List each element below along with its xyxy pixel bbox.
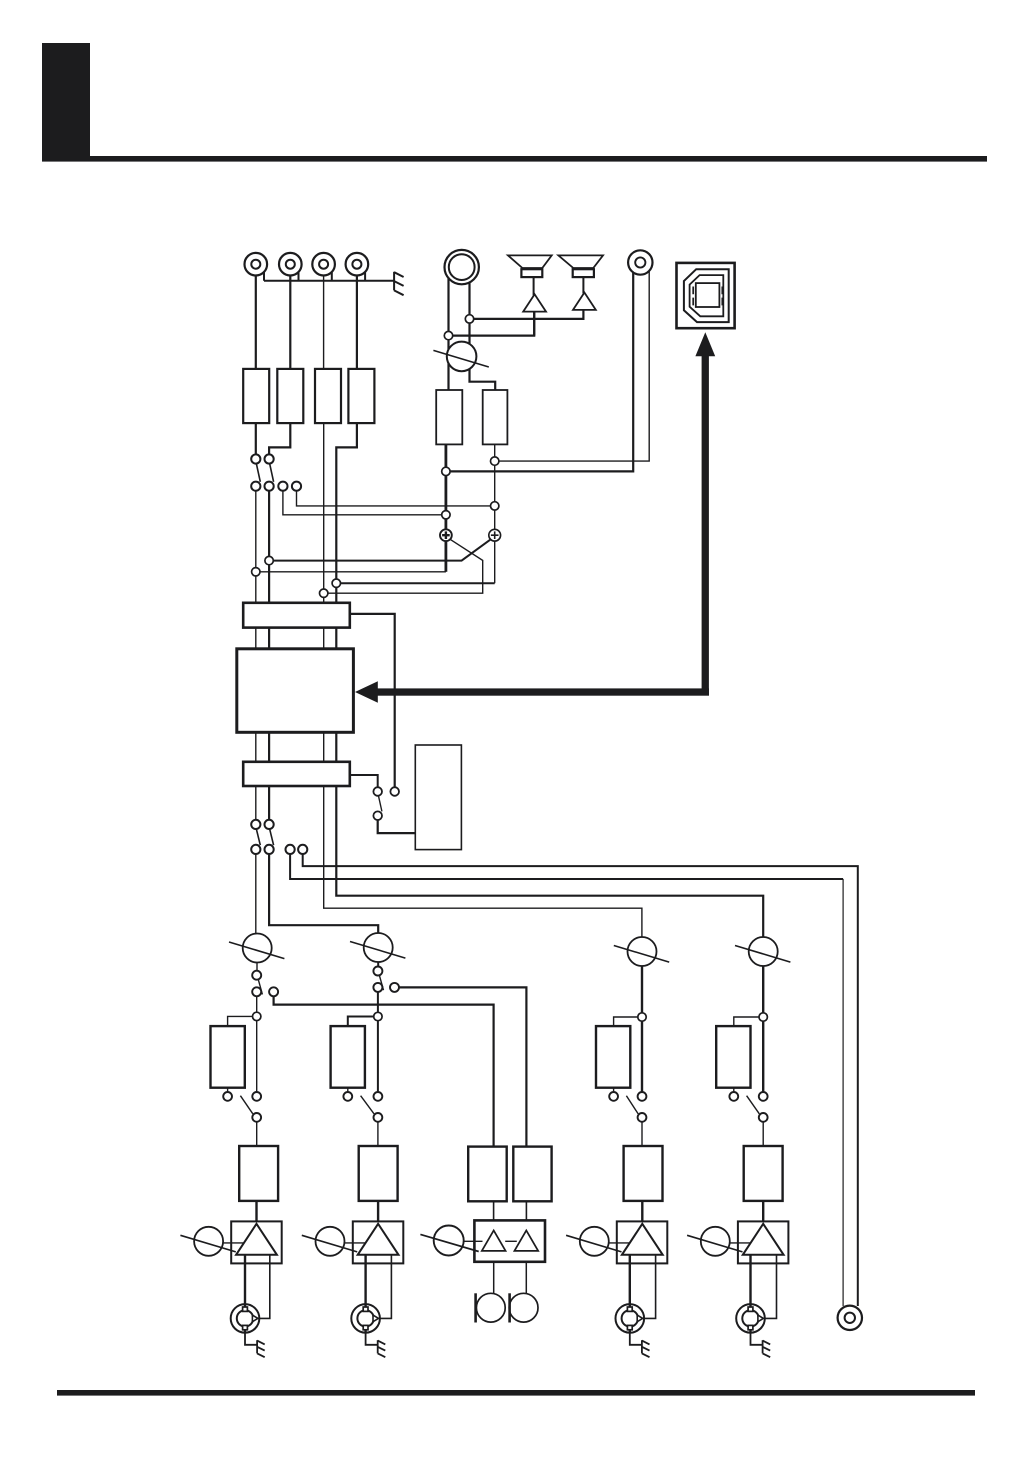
bus to sum R lower with diagonal — [271, 540, 490, 561]
amp box ch3 — [617, 1221, 668, 1263]
junction B4 bus on v2 — [491, 502, 499, 510]
arrow to USB — [695, 332, 715, 692]
bus to speaker amp R — [471, 310, 583, 319]
chassis ground G1 — [394, 272, 404, 295]
wire switch to fader ch4 — [762, 1122, 764, 1146]
chassis ground ch3 — [630, 1333, 650, 1358]
level knob ch2 — [350, 933, 405, 962]
wire B1 down — [255, 491, 257, 603]
wire amp to jack ch1 — [244, 1255, 246, 1333]
wire rec amp L out — [493, 1262, 495, 1294]
arrow to DSP — [355, 681, 709, 703]
wire ch4 main down — [762, 966, 764, 1092]
amp triangle ch4 — [743, 1224, 784, 1255]
wire ch2 main down — [377, 992, 379, 1092]
wire rec amp R out — [525, 1262, 527, 1294]
amp box ch2 — [353, 1221, 404, 1263]
wire bus2 ch1 down — [255, 786, 257, 820]
bus ch2 to rec B — [399, 987, 526, 1146]
bus block 2 — [243, 762, 350, 786]
fader block ch2 — [359, 1146, 398, 1201]
wire v1 mic A down — [444, 444, 447, 529]
mic block A — [436, 390, 462, 444]
wires DSP to bus2 thin — [256, 732, 324, 762]
wire rec A to amp — [493, 1201, 495, 1220]
speaker amp R — [573, 293, 596, 310]
fader block ch3 — [624, 1146, 663, 1201]
speaker R — [558, 255, 603, 293]
wire amp to jack ch2 — [364, 1255, 366, 1333]
junction ch4 wire — [332, 579, 340, 587]
junction ch1 — [253, 1012, 261, 1020]
bus output R to jack — [303, 854, 858, 1306]
aux switch ch1 — [252, 971, 278, 997]
wire sum L cross to ch3 — [328, 539, 483, 593]
bus to speaker amp L — [450, 312, 534, 336]
EQ bypass switch ch1 — [223, 1088, 261, 1122]
wire amp return ch3 — [644, 1255, 656, 1319]
rec amp triangle L — [482, 1230, 506, 1251]
aux switch ch2 — [373, 967, 399, 992]
wires bus1 to DSP thick — [269, 628, 336, 649]
bus v1 to jack J5 left — [446, 273, 633, 472]
contact B3 — [278, 482, 287, 491]
wire knob2 down — [377, 962, 379, 967]
bus B3 to sum L — [283, 491, 446, 515]
mic block B — [483, 390, 508, 444]
wire J3 drop — [323, 276, 325, 369]
sum node R — [489, 529, 501, 541]
chassis ground ch2 — [366, 1333, 386, 1358]
switch S1 — [251, 454, 260, 490]
wire to recorder block — [378, 820, 416, 833]
bus output L vertical — [842, 879, 844, 1306]
wire knob1 down — [256, 962, 258, 970]
wire amp to jack ch4 — [749, 1255, 751, 1333]
chassis ground ch1 — [245, 1333, 265, 1358]
wire mic L — [447, 278, 449, 390]
output jack J5 — [628, 250, 652, 274]
bus ch1 to rec A — [274, 996, 494, 1146]
phones jack ch3 — [616, 1304, 645, 1333]
wire amp return ch4 — [765, 1255, 777, 1319]
rec amp inner link — [505, 1240, 517, 1242]
junction ch3 wire — [320, 589, 328, 597]
bus block 1 — [243, 603, 350, 628]
switch S5 — [251, 820, 260, 854]
bus output L horizontal — [290, 854, 843, 879]
wire B2 down — [268, 491, 270, 603]
phones jack ch2 — [351, 1304, 380, 1333]
wire R2 jog to switch — [269, 423, 290, 454]
wire bus2 right out — [350, 775, 378, 787]
amp knob stub ch3 — [607, 1242, 630, 1244]
rca jack R — [509, 1293, 538, 1322]
amp knob stub ch1 — [222, 1242, 245, 1244]
wire ch3 eq link — [614, 1017, 639, 1026]
speaker L — [508, 255, 552, 295]
wire fader to amp ch3 — [641, 1201, 643, 1222]
wire fader to amp ch4 — [762, 1201, 764, 1222]
wire J1 drop — [255, 276, 257, 369]
wire ch3 down to knob — [324, 786, 642, 937]
amp triangle ch1 — [236, 1224, 277, 1255]
level knob ch1 — [229, 934, 284, 963]
amp triangle ch2 — [358, 1224, 399, 1255]
bus B4 to sum R — [297, 491, 495, 506]
wire bus2 ch2 down — [268, 786, 270, 820]
rec block A — [468, 1147, 507, 1202]
EQ block ch2 — [331, 1026, 365, 1088]
junction mic R — [465, 315, 473, 323]
junction ch3 — [638, 1013, 646, 1021]
bus sum R to ch4 wire — [341, 582, 495, 584]
wire switch to fader ch3 — [641, 1122, 643, 1146]
wire ch1 to knob — [255, 854, 257, 934]
sum node L — [440, 529, 452, 541]
phones jack ch1 — [231, 1304, 260, 1333]
wire ch1 main down — [256, 996, 258, 1092]
wire R4 jog down to bus block — [336, 423, 357, 603]
amp box ch1 — [231, 1221, 282, 1263]
ground bus wire — [264, 273, 394, 281]
wire fader to amp ch1 — [255, 1201, 257, 1222]
rec knob stub — [463, 1240, 483, 1242]
junction v2 upper — [491, 457, 499, 465]
level knob ch3 — [614, 937, 669, 966]
switch S2 — [265, 454, 274, 490]
junction on B2 wire — [265, 556, 273, 564]
wire R3 down to bus block — [323, 423, 325, 603]
EQ block ch4 — [716, 1026, 750, 1088]
wire switch to fader ch1 — [256, 1122, 258, 1146]
switch S6 — [265, 820, 274, 854]
wire ch2 eq link — [348, 1017, 375, 1027]
wire amp to jack ch3 — [629, 1255, 631, 1333]
contact out R — [298, 845, 307, 854]
wire J4 drop — [356, 276, 358, 369]
amp knob ch1 — [180, 1227, 235, 1256]
rca jack L — [476, 1293, 506, 1322]
wire ch4 eq link — [734, 1017, 760, 1026]
wire ch4 down to knob — [336, 786, 763, 937]
headphone jack J6 — [445, 250, 479, 284]
EQ block ch1 — [211, 1026, 245, 1088]
wires bus1 to DSP thin — [256, 628, 324, 649]
junction B3 bus on v1 — [442, 511, 450, 519]
wire amp return ch1 — [259, 1255, 270, 1319]
junction v1 upper — [442, 467, 450, 475]
rec block B — [513, 1147, 551, 1202]
wire ch2 to knob — [269, 854, 378, 933]
wire amp return ch2 — [380, 1255, 392, 1319]
junction on B1 wire — [252, 568, 260, 576]
recorder switch — [373, 787, 399, 820]
amp triangle ch3 — [622, 1224, 663, 1255]
recorder block — [415, 745, 461, 850]
amp knob ch2 — [302, 1227, 357, 1256]
mic level knob — [433, 342, 488, 372]
wire sum R down — [494, 541, 496, 583]
input jack J4 — [346, 253, 369, 276]
wire J2 drop — [289, 276, 291, 369]
contact B4 — [292, 482, 301, 491]
rec amp box — [474, 1220, 545, 1261]
USB connector — [677, 263, 735, 328]
rec amp triangle R — [514, 1230, 538, 1251]
input block R4 — [348, 369, 374, 423]
bus v2 to jack J5 right — [495, 271, 650, 461]
header rule — [42, 156, 987, 162]
master output jack — [838, 1306, 862, 1330]
wires DSP to bus2 thick — [269, 732, 336, 762]
wire rec B to amp — [525, 1201, 527, 1220]
wire R1 to switch — [255, 423, 257, 454]
chassis ground ch4 — [751, 1333, 771, 1358]
wire ch1 eq link — [228, 1016, 254, 1026]
fader block ch1 — [239, 1146, 278, 1201]
input jack J1 — [245, 253, 268, 276]
header black tab — [42, 43, 90, 161]
junction ch4 — [759, 1013, 767, 1021]
rec level knob — [420, 1226, 478, 1256]
speaker amp L — [523, 294, 546, 311]
amp knob ch4 — [687, 1227, 742, 1256]
input block R2 — [277, 369, 303, 423]
EQ bypass switch ch4 — [729, 1088, 767, 1122]
junction mic L — [444, 331, 452, 339]
contact out L — [286, 845, 295, 854]
input jack J3 — [312, 253, 335, 276]
wire bus1 right out — [350, 614, 395, 787]
wire v2 mic B down — [494, 444, 496, 529]
input jack J2 — [279, 253, 302, 276]
wire switch to fader ch2 — [377, 1122, 379, 1146]
amp knob stub ch2 — [343, 1242, 366, 1244]
level knob ch4 — [735, 937, 790, 966]
amp knob ch3 — [566, 1227, 621, 1256]
phones jack ch4 — [736, 1304, 765, 1333]
fader block ch4 — [744, 1146, 783, 1201]
EQ bypass switch ch2 — [343, 1088, 382, 1122]
DSP block — [237, 649, 354, 733]
wire sum L down — [444, 541, 447, 572]
input block R1 — [243, 369, 269, 423]
wire ch3 main down — [641, 966, 643, 1092]
bus to sum L lower — [258, 571, 446, 573]
amp box ch4 — [738, 1221, 789, 1263]
wire mic R — [470, 282, 496, 390]
EQ bypass switch ch3 — [609, 1088, 646, 1122]
wire fader to amp ch2 — [377, 1201, 379, 1222]
junction ch2 — [374, 1012, 382, 1020]
input block R3 — [315, 369, 341, 423]
footer rule — [57, 1390, 975, 1396]
wire speaker amp L — [533, 312, 535, 336]
EQ block ch3 — [596, 1026, 630, 1088]
amp knob stub ch4 — [728, 1242, 751, 1244]
